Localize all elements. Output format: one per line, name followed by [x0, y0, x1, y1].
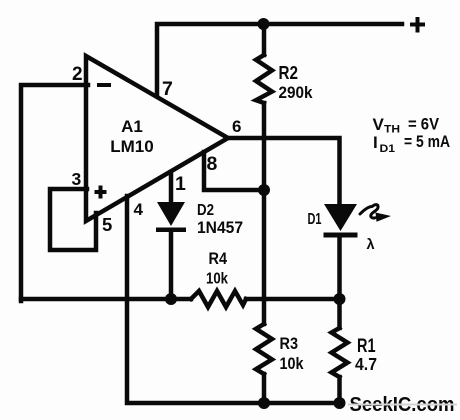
wire R4 line right: [246, 297, 340, 302]
svg-text:4: 4: [134, 200, 144, 219]
svg-text:R2: R2: [279, 62, 299, 83]
svg-text:LM10: LM10: [110, 137, 153, 156]
svg-text:= 5 mA: = 5 mA: [404, 132, 450, 151]
resistor R4 10k zigzag: [191, 291, 246, 307]
svg-text:D1: D1: [308, 211, 322, 228]
svg-text:2: 2: [72, 64, 83, 85]
svg-text:10k: 10k: [206, 271, 228, 288]
svg-text:6: 6: [232, 117, 241, 136]
node junction pin8 / R2-R3 column: [258, 184, 270, 196]
resistor R3 10k zigzag: [256, 324, 272, 374]
svg-text:TH: TH: [384, 124, 400, 136]
terminal + (positive supply): [412, 19, 423, 31]
svg-text:= 6V: = 6V: [408, 115, 440, 134]
svg-text:7: 7: [162, 78, 173, 100]
inverting input minus symbol: [99, 83, 109, 87]
wire D2 cathode to R4 line: [169, 231, 174, 299]
svg-text:D2: D2: [197, 202, 214, 219]
diode D2 1N457: [156, 202, 186, 232]
node junction D2 / R4 line: [165, 293, 177, 305]
wire pin 8 stub: [204, 152, 264, 190]
svg-text:λ: λ: [367, 237, 375, 253]
svg-text:290k: 290k: [279, 83, 313, 102]
wire pin 1 stub: [169, 172, 174, 203]
svg-text:10k: 10k: [280, 354, 304, 373]
op-amp A1 LM10 triangle: [86, 56, 228, 221]
node junction bottom rail / R3: [258, 397, 270, 409]
svg-text:1: 1: [175, 173, 186, 195]
wire R4 line left: [21, 297, 191, 302]
node junction top rail / R2: [258, 18, 270, 30]
wire pin 3 / pin 5 loop: [50, 189, 96, 250]
non-inverting input plus symbol: [97, 188, 105, 197]
wire R3 to bottom rail: [262, 374, 267, 403]
svg-text:V: V: [373, 115, 385, 134]
svg-text:5: 5: [102, 214, 112, 235]
wire top supply rail: [157, 24, 402, 97]
svg-text:R4: R4: [209, 250, 228, 268]
wire D1 cathode to R1: [337, 236, 342, 328]
watermark strike line: [349, 404, 456, 406]
wire pin 4 down and bottom rail: [127, 196, 340, 403]
LED D1: [324, 204, 358, 238]
wire pin 2 inverting input feedback: [21, 85, 88, 301]
svg-text:A1: A1: [121, 117, 143, 136]
node junction R4 / D1 branch: [334, 293, 346, 305]
svg-text:4.7: 4.7: [355, 354, 377, 374]
svg-text:3: 3: [72, 169, 82, 189]
svg-text:D1: D1: [380, 143, 396, 155]
svg-text:8: 8: [207, 153, 218, 175]
node junction bottom rail / R1: [334, 397, 346, 409]
resistor R2 290k zigzag: [256, 55, 272, 103]
svg-text:I: I: [373, 133, 378, 152]
svg-text:R3: R3: [280, 334, 299, 353]
svg-text:1N457: 1N457: [197, 219, 243, 237]
wire R2 to R3 vertical: [262, 103, 267, 324]
LED light emission squiggle arrow: [360, 205, 378, 218]
resistor R1 4.7 zigzag: [332, 328, 348, 377]
wire R1 to bottom rail: [337, 377, 342, 403]
wire R2 branch upper: [262, 24, 267, 55]
wire pin 6 output to D1 branch: [228, 138, 340, 204]
